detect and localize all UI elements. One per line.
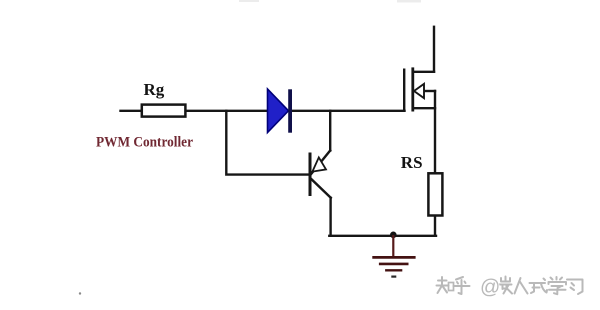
svg-text:Rg: Rg (144, 80, 165, 99)
svg-text:RS: RS (401, 153, 423, 172)
svg-text:PWM Controller: PWM Controller (96, 134, 194, 150)
svg-text:@: @ (480, 277, 500, 299)
